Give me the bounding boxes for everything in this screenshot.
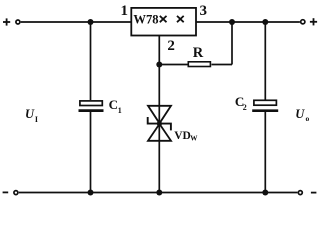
svg-text:I: I: [35, 115, 38, 124]
capacitor C2 wire top: [264, 22, 266, 100]
svg-text:U: U: [25, 107, 35, 121]
wire resistor to vertical riser: [212, 64, 233, 66]
terminal circle bottom-left (- input): [14, 191, 18, 195]
node center of VDw: [157, 121, 162, 126]
capacitor C1 wire bottom: [90, 112, 92, 193]
wire bottom rail: [19, 192, 298, 194]
wire top rail right (pin 3 to + output terminal): [196, 21, 300, 23]
svg-text:3: 3: [199, 3, 207, 19]
wire top rail left (terminal to U1 pin 1): [21, 21, 131, 23]
terminal circle top-left (+ input): [16, 20, 20, 24]
svg-text:C: C: [109, 97, 118, 112]
node junction bottom C1: [88, 190, 94, 196]
zener diode VDw bottom triangle: [148, 124, 171, 141]
node junction top C1: [88, 19, 94, 25]
terminal circle bottom-right (- output): [298, 191, 302, 195]
zener diode VDw top triangle: [148, 106, 171, 124]
node junction top R branch: [229, 19, 235, 25]
svg-text:1: 1: [120, 3, 128, 19]
capacitor C1 top plate: [80, 101, 102, 106]
svg-text:W: W: [190, 135, 198, 143]
capacitor C1 bottom plate: [79, 109, 104, 112]
svg-text:W78: W78: [133, 13, 158, 27]
regulator U1 box W78xx: [131, 8, 196, 36]
node junction bottom VDw: [156, 190, 162, 196]
resistor R body: [188, 62, 210, 67]
node junction pin2 / R: [156, 62, 162, 68]
minus sign bottom-right: [311, 192, 317, 194]
svg-text:o: o: [306, 114, 310, 123]
capacitor C1 wire top: [90, 22, 92, 100]
zener bar with hooks: [148, 117, 171, 130]
capacitor C2 top plate: [254, 100, 277, 105]
plus sign top-right: [310, 18, 317, 25]
svg-text:2: 2: [243, 103, 247, 112]
node junction top C2: [262, 19, 268, 25]
terminal circle top-right (+ output): [301, 20, 305, 24]
svg-text:U: U: [295, 107, 305, 121]
svg-text:R: R: [193, 45, 204, 61]
node junction bottom C2: [262, 190, 268, 196]
svg-text:1: 1: [118, 106, 122, 115]
plus sign top-left: [3, 18, 10, 25]
capacitor C2 bottom plate: [252, 109, 278, 112]
minus sign bottom-left: [3, 191, 9, 193]
svg-text:2: 2: [167, 38, 175, 54]
svg-text:VD: VD: [174, 130, 191, 142]
wire riser to top rail: [231, 22, 233, 65]
capacitor C2 wire bottom: [264, 112, 266, 193]
wire pin 2 vertical (box to bottom rail through VDw): [158, 36, 160, 193]
wire junction to resistor R: [159, 64, 187, 66]
